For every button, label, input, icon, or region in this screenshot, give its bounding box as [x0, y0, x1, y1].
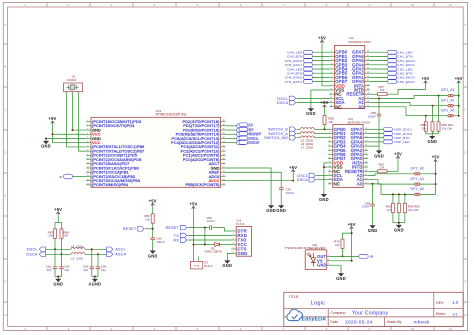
svg-text:A: A [464, 23, 466, 27]
svg-text:10k: 10k [387, 208, 392, 212]
wire U12 A1 to jumper row [370, 103, 459, 107]
svg-text:21: 21 [365, 157, 367, 159]
wire +5V to R66 [152, 206, 154, 214]
svg-text:10: 10 [411, 327, 415, 331]
ground (C58) [368, 223, 378, 233]
svg-text:6: 6 [233, 252, 234, 254]
net flag RESET (serial) [165, 225, 186, 230]
title block [284, 292, 463, 326]
IO expander U14 MCP23017-E/SO [328, 117, 371, 188]
solder jumper GP1_A1 [441, 98, 455, 107]
svg-text:GND: GND [319, 197, 329, 202]
svg-text:10k: 10k [328, 120, 333, 124]
net flag SWITCH_A [268, 131, 300, 136]
svg-text:B: B [4, 65, 6, 69]
resistor R65 10k [403, 203, 420, 212]
svg-text:23: 23 [223, 158, 225, 160]
svg-text:+5V: +5V [318, 35, 326, 40]
wire XTAL2 [79, 95, 87, 152]
IR receiver U20 TSOP1138 [285, 243, 330, 270]
svg-text:+5V: +5V [54, 207, 62, 212]
svg-text:GND: GND [266, 208, 276, 213]
wire VS [330, 260, 352, 262]
svg-text:10k: 10k [421, 127, 426, 131]
svg-text:10k: 10k [380, 88, 385, 92]
inductor value labels [301, 139, 314, 150]
power flag +5V (serial) [189, 202, 197, 210]
wire +5V column serial [193, 210, 195, 262]
svg-text:10k: 10k [145, 218, 150, 222]
power flag +5V (R58) [320, 100, 328, 108]
svg-text:+5V: +5V [289, 165, 297, 170]
power flag +5V (reset) [149, 198, 157, 206]
svg-text:GP2_A2: GP2_A2 [410, 167, 424, 171]
wire U20 GND [330, 265, 341, 271]
svg-text:REV:: REV: [436, 301, 444, 305]
svg-text:10k: 10k [335, 243, 340, 247]
svg-text:12: 12 [87, 167, 89, 169]
wire R62 to +5V [387, 170, 398, 172]
net flag DSCA (filter) [26, 252, 45, 257]
svg-text:F: F [464, 237, 466, 241]
resistor R57 10k [378, 85, 388, 96]
net flag RX (serial) [173, 238, 231, 243]
svg-text:26: 26 [367, 59, 369, 61]
svg-text:100nF: 100nF [367, 115, 376, 119]
svg-text:9: 9 [331, 84, 332, 86]
wire +5V to U12 VDD [322, 43, 329, 86]
svg-text:RX: RX [173, 238, 179, 242]
svg-text:GND: GND [222, 263, 232, 268]
wire U12 VSS to GND [311, 90, 330, 106]
svg-text:18: 18 [223, 179, 225, 181]
wire C61/C62 to GND [55, 269, 62, 277]
ground (left of U13) [41, 139, 51, 149]
svg-text:33p: 33p [64, 268, 69, 272]
net flag SWITCH_B [268, 127, 300, 132]
net flag RESET (pullup) [123, 227, 153, 232]
svg-text:Company:: Company: [330, 311, 346, 315]
net flag TX (serial) [174, 233, 231, 238]
wire R58 to GPB0 [324, 125, 326, 130]
net flag SWITCH_INS [264, 135, 300, 140]
svg-text:1: 1 [328, 255, 329, 257]
net flag DSCL (U12) [277, 96, 329, 101]
svg-text:2: 2 [331, 55, 332, 57]
svg-text:20: 20 [223, 171, 225, 173]
svg-text:25: 25 [365, 141, 367, 143]
svg-text:28: 28 [223, 137, 225, 139]
svg-text:10: 10 [87, 158, 89, 160]
svg-text:13: 13 [330, 101, 332, 103]
power flag +5V (U12 VDD) [318, 35, 326, 43]
svg-text:1/1: 1/1 [453, 312, 458, 316]
net flag CH2_ENC0 [370, 76, 415, 80]
ground (U15) [222, 258, 232, 268]
wire OUT to IR flag [330, 255, 359, 257]
svg-text:33p: 33p [46, 268, 51, 272]
svg-text:25: 25 [367, 63, 369, 65]
svg-text:NC: NC [335, 104, 342, 109]
wire DSCL to L8 [46, 248, 71, 250]
svg-text:1: 1 [233, 230, 234, 232]
net flag CH0_LED [287, 50, 329, 54]
net flag HDP_LED [368, 140, 410, 144]
net flag DSCA (U13) [226, 141, 259, 145]
wire DSCA to L9 [46, 253, 71, 255]
wire R57 to +5V [387, 83, 426, 94]
net flag CH2_LED [370, 67, 413, 71]
svg-text:22: 22 [223, 162, 225, 164]
wire U13 AREF to C67 column [226, 172, 282, 203]
inductor L8 220Ω [71, 245, 85, 250]
svg-text:100nF: 100nF [156, 240, 165, 244]
svg-text:DSCA: DSCA [26, 253, 38, 257]
svg-text:GND: GND [276, 208, 286, 213]
net flag RX (left column) [239, 127, 254, 131]
wire L9 to ASCA [85, 253, 107, 255]
ground (U12 VSS) [306, 106, 316, 116]
svg-text:27: 27 [223, 141, 225, 143]
crystal X1 16MHz [64, 74, 83, 95]
svg-text:29: 29 [223, 133, 225, 135]
wire C66 to DTR [213, 228, 232, 231]
svg-text:17: 17 [367, 97, 369, 99]
ground (U14 VSS) [319, 192, 329, 202]
svg-text:IR: IR [370, 255, 374, 259]
svg-text:11: 11 [449, 3, 452, 7]
svg-text:10k: 10k [63, 234, 68, 238]
svg-text:2020-05-24: 2020-05-24 [345, 320, 373, 326]
svg-text:1: 1 [329, 128, 330, 130]
svg-text:5: 5 [233, 248, 234, 250]
svg-text:7: 7 [329, 153, 330, 155]
rev [436, 300, 458, 305]
wire U14 GPA3 to GND [368, 146, 379, 148]
resistor R64 10k [397, 203, 400, 212]
svg-text:3: 3 [328, 264, 329, 266]
svg-text:14: 14 [87, 175, 89, 177]
svg-text:L7 220Ω: L7 220Ω [301, 146, 314, 150]
net flag RESET (left column) [239, 132, 263, 136]
svg-text:E: E [4, 194, 6, 198]
svg-text:RX: RX [249, 128, 255, 132]
wire +5V rail to R67/R68 [55, 215, 62, 229]
svg-text:GP1_A0: GP1_A0 [441, 108, 455, 112]
svg-text:14: 14 [330, 105, 332, 107]
svg-text:20: 20 [365, 162, 367, 164]
resistor R61 10k [437, 122, 454, 131]
capacitor C61 33p [46, 249, 57, 272]
svg-text:2: 2 [233, 234, 234, 236]
net flag ASCA [107, 252, 127, 257]
svg-text:1: 1 [331, 51, 332, 53]
wire +5V column GP2 [435, 163, 437, 195]
power flag +5V (GP1 left) [421, 76, 429, 84]
capacitor C58 100nF [361, 201, 374, 208]
svg-text:16: 16 [365, 178, 367, 180]
svg-text:3: 3 [329, 136, 330, 138]
svg-text:10k 10k: 10k 10k [442, 127, 453, 131]
svg-text:DSCA: DSCA [249, 141, 261, 145]
svg-text:ASCL: ASCL [115, 248, 126, 252]
power flag +5V (R62) [394, 151, 402, 171]
svg-text:6: 6 [329, 149, 330, 151]
power flag +5V (AVCC) [289, 165, 297, 181]
resistor R63 10k [386, 203, 395, 212]
svg-text:4: 4 [329, 141, 330, 143]
svg-text:PLS-2: PLS-2 [204, 264, 213, 268]
svg-text:10: 10 [329, 166, 331, 168]
net flag CH4_ENC1 [285, 80, 330, 84]
ground (GNDGND left) [266, 203, 276, 213]
svg-text:24: 24 [365, 145, 367, 147]
wire L8 to ASCL [85, 248, 107, 250]
svg-text:11: 11 [87, 162, 89, 164]
net flag CH0_BTN [287, 55, 329, 59]
capacitor C62 33p [59, 254, 70, 272]
svg-text:RESET: RESET [249, 132, 263, 136]
solder jumper GP2_A1 [410, 177, 424, 186]
svg-text:22: 22 [365, 153, 367, 155]
svg-text:DSCL: DSCL [249, 136, 260, 140]
ground (GNDGND right) [276, 203, 286, 213]
svg-text:ASCA: ASCA [115, 253, 126, 257]
net flag CH1_LED [370, 50, 413, 54]
net flag DSCA (U12) [277, 100, 329, 105]
net flag DSCL (U13) [226, 137, 259, 141]
svg-text:2: 2 [329, 132, 330, 134]
svg-text:28: 28 [367, 51, 369, 53]
svg-text:17: 17 [365, 174, 367, 176]
svg-text:8: 8 [87, 150, 88, 152]
svg-text:19: 19 [223, 175, 225, 177]
wire GP2 resistors to GND [393, 213, 405, 224]
svg-text:15: 15 [367, 105, 369, 107]
wire jumper rows to resistors [426, 96, 439, 122]
svg-text:Your Company: Your Company [352, 310, 388, 316]
svg-text:33p: 33p [83, 268, 88, 272]
svg-text:PI PI: PI PI [194, 265, 199, 267]
svg-text:GND: GND [336, 276, 346, 281]
svg-text:10: 10 [330, 89, 332, 91]
net flag DSCL (left column) [239, 136, 259, 140]
svg-text:(PCINT4/MISO)PB4: (PCINT4/MISO)PB4 [92, 182, 129, 187]
power flag +5V (GP2) [432, 155, 440, 163]
capacitor C63 33p [83, 249, 94, 272]
wire +5V column GP1 [458, 83, 460, 117]
svg-text:3: 3 [87, 129, 88, 131]
svg-text:5: 5 [331, 68, 332, 70]
company [330, 310, 388, 316]
svg-text:2: 2 [87, 124, 88, 126]
net flag HDP_ENC1 [368, 127, 412, 131]
svg-text:GP1_A2: GP1_A2 [441, 88, 455, 92]
capacitor C56 100nF [367, 111, 381, 118]
svg-text:GND: GND [237, 251, 247, 256]
IO expander U12 MCP23017-E/SO [329, 36, 371, 109]
svg-text:21: 21 [223, 167, 225, 169]
solder jumper GP2_A2 [410, 167, 424, 176]
svg-text:11: 11 [329, 170, 331, 172]
wire GP2 rows to resistors [392, 193, 406, 203]
svg-text:GND: GND [53, 282, 63, 287]
sheet [436, 312, 458, 316]
svg-text:18: 18 [365, 170, 367, 172]
svg-text:A0: A0 [358, 104, 364, 109]
svg-text:CH2_ENC1: CH2_ENC1 [397, 80, 415, 84]
date [330, 320, 372, 326]
svg-text:L8 220Ω: L8 220Ω [71, 245, 84, 249]
wire C58 column [372, 184, 374, 223]
svg-text:27: 27 [365, 132, 367, 134]
serial header U15 PLS-6 [231, 218, 251, 256]
wire U12 A2 to jumper row [370, 95, 459, 99]
capacitor C64 33p [96, 254, 107, 272]
svg-text:ATMEGA328P-AU: ATMEGA328P-AU [156, 113, 187, 117]
svg-text:F: F [4, 237, 6, 241]
net flag TX (left column) [239, 123, 254, 127]
capacitor C66 100nF [206, 216, 215, 230]
svg-text:GND: GND [374, 153, 384, 158]
wire XTAL1 [67, 95, 87, 147]
net flag RESET (U13) [226, 132, 262, 136]
svg-text:H: H [4, 313, 6, 317]
resistor R68 10k [60, 229, 69, 238]
svg-text:3: 3 [233, 239, 234, 241]
ground AGND [88, 276, 101, 287]
power flag +5V (GP1 right) [455, 76, 463, 84]
svg-text:25: 25 [223, 150, 225, 152]
svg-text:26: 26 [365, 136, 367, 138]
svg-text:+5V: +5V [149, 198, 157, 203]
wire U14 A0 to jumper row [368, 183, 436, 195]
capacitor C67 100nF [279, 188, 294, 195]
svg-text:16: 16 [367, 101, 369, 103]
svg-text:5: 5 [87, 137, 88, 139]
svg-text:TX: TX [249, 123, 254, 127]
svg-text:11: 11 [449, 327, 452, 331]
svg-text:RESET: RESET [123, 227, 137, 231]
svg-text:+5V: +5V [48, 116, 56, 121]
svg-text:8: 8 [329, 157, 330, 159]
wire U13 AVCC to +5V [226, 180, 295, 182]
svg-text:A: A [4, 23, 6, 27]
net flag CH0_ENC1 [285, 63, 330, 67]
wire R70 to OUT [342, 249, 344, 258]
svg-text:+5V: +5V [432, 155, 440, 160]
svg-text:6: 6 [331, 72, 332, 74]
net flag CH4_BTN [287, 71, 329, 75]
wire U14 A2 to jumper row [368, 174, 436, 176]
svg-text:B: B [464, 65, 466, 69]
net flag IR (to U13 PB2) [59, 174, 86, 179]
ground (U20) [336, 271, 346, 281]
svg-text:+5V: +5V [189, 202, 197, 207]
wire crystal case to GND pin [72, 95, 87, 131]
svg-text:19: 19 [367, 89, 369, 91]
svg-text:GND: GND [317, 263, 327, 268]
svg-text:10k: 10k [380, 166, 385, 170]
wire R67 to SCL [54, 238, 56, 250]
svg-text:GND: GND [427, 139, 437, 144]
svg-text:11: 11 [330, 93, 332, 95]
svg-text:H: H [464, 313, 466, 317]
EasyEDA logo [287, 309, 326, 322]
wire R66 to junction [152, 223, 154, 238]
svg-text:24: 24 [223, 154, 225, 156]
capacitor C60 100nF [150, 237, 164, 244]
svg-text:1.0: 1.0 [452, 300, 459, 305]
net flag CH1_ENC0 [370, 59, 415, 63]
diode D1 SSM_C8678 [194, 228, 232, 254]
svg-text:RESET: RESET [165, 226, 179, 230]
title text [289, 295, 325, 307]
svg-text:CH4_ENC1: CH4_ENC1 [285, 80, 303, 84]
svg-text:18: 18 [367, 93, 369, 95]
svg-text:3: 3 [331, 59, 332, 61]
wire GND pin 5 [45, 137, 86, 139]
svg-text:19: 19 [365, 166, 367, 168]
wire R70 top [343, 233, 352, 239]
svg-text:20: 20 [367, 84, 369, 86]
power flag +5V (I2C pullups) [54, 207, 62, 215]
ground (I2C filter) [53, 276, 63, 287]
svg-text:1: 1 [87, 120, 88, 122]
resistor R70 10k [334, 239, 344, 248]
wire U12 RESET# to R57 [370, 93, 378, 95]
svg-text:PLS-6: PLS-6 [236, 222, 244, 226]
solder jumper GP1_A0 [441, 108, 455, 117]
svg-text:13: 13 [329, 178, 331, 180]
net flag HDP_ENC0 [368, 132, 412, 136]
wire U15 GND [227, 254, 231, 259]
power flag +5V (IR) [348, 222, 356, 230]
svg-text:GND: GND [368, 228, 378, 233]
resistor R59 10k [420, 122, 427, 131]
svg-text:DSCA: DSCA [277, 101, 289, 105]
svg-text:SWITCH_INS: SWITCH_INS [264, 136, 288, 140]
resistor R58 10k [323, 115, 334, 124]
ground (reset) [148, 248, 158, 258]
svg-text:mkwsk: mkwsk [414, 320, 430, 326]
svg-text:+5V: +5V [320, 100, 328, 105]
net flag CH1_BTN [370, 55, 413, 59]
wire resistor bottoms to GND [426, 131, 439, 134]
wire C60 to GND [152, 240, 154, 248]
resistor R66 10k [144, 214, 154, 223]
svg-text:8: 8 [331, 80, 332, 82]
svg-text:Logic: Logic [311, 300, 325, 306]
svg-text:HDP_LED: HDP_LED [394, 140, 410, 144]
svg-text:4: 4 [233, 243, 234, 245]
solder jumper GP2_A0 [410, 187, 424, 196]
svg-text:GND: GND [41, 144, 51, 149]
svg-text:Sheet:: Sheet: [436, 312, 446, 316]
svg-text:15: 15 [87, 179, 89, 181]
MCU U13 ATMEGA328P-AU [86, 109, 226, 188]
svg-text:10k 10k: 10k 10k [408, 208, 419, 212]
svg-text:16: 16 [87, 184, 89, 186]
svg-text:100nF: 100nF [206, 219, 215, 223]
svg-text:17: 17 [223, 184, 225, 186]
power flag +5V (U13 VCC) [48, 116, 56, 124]
svg-text:15: 15 [365, 183, 367, 185]
svg-text:DSCA: DSCA [297, 178, 309, 182]
svg-text:7: 7 [87, 146, 88, 148]
drawn by [387, 320, 430, 326]
net flag DSCA (U14) [297, 177, 328, 182]
